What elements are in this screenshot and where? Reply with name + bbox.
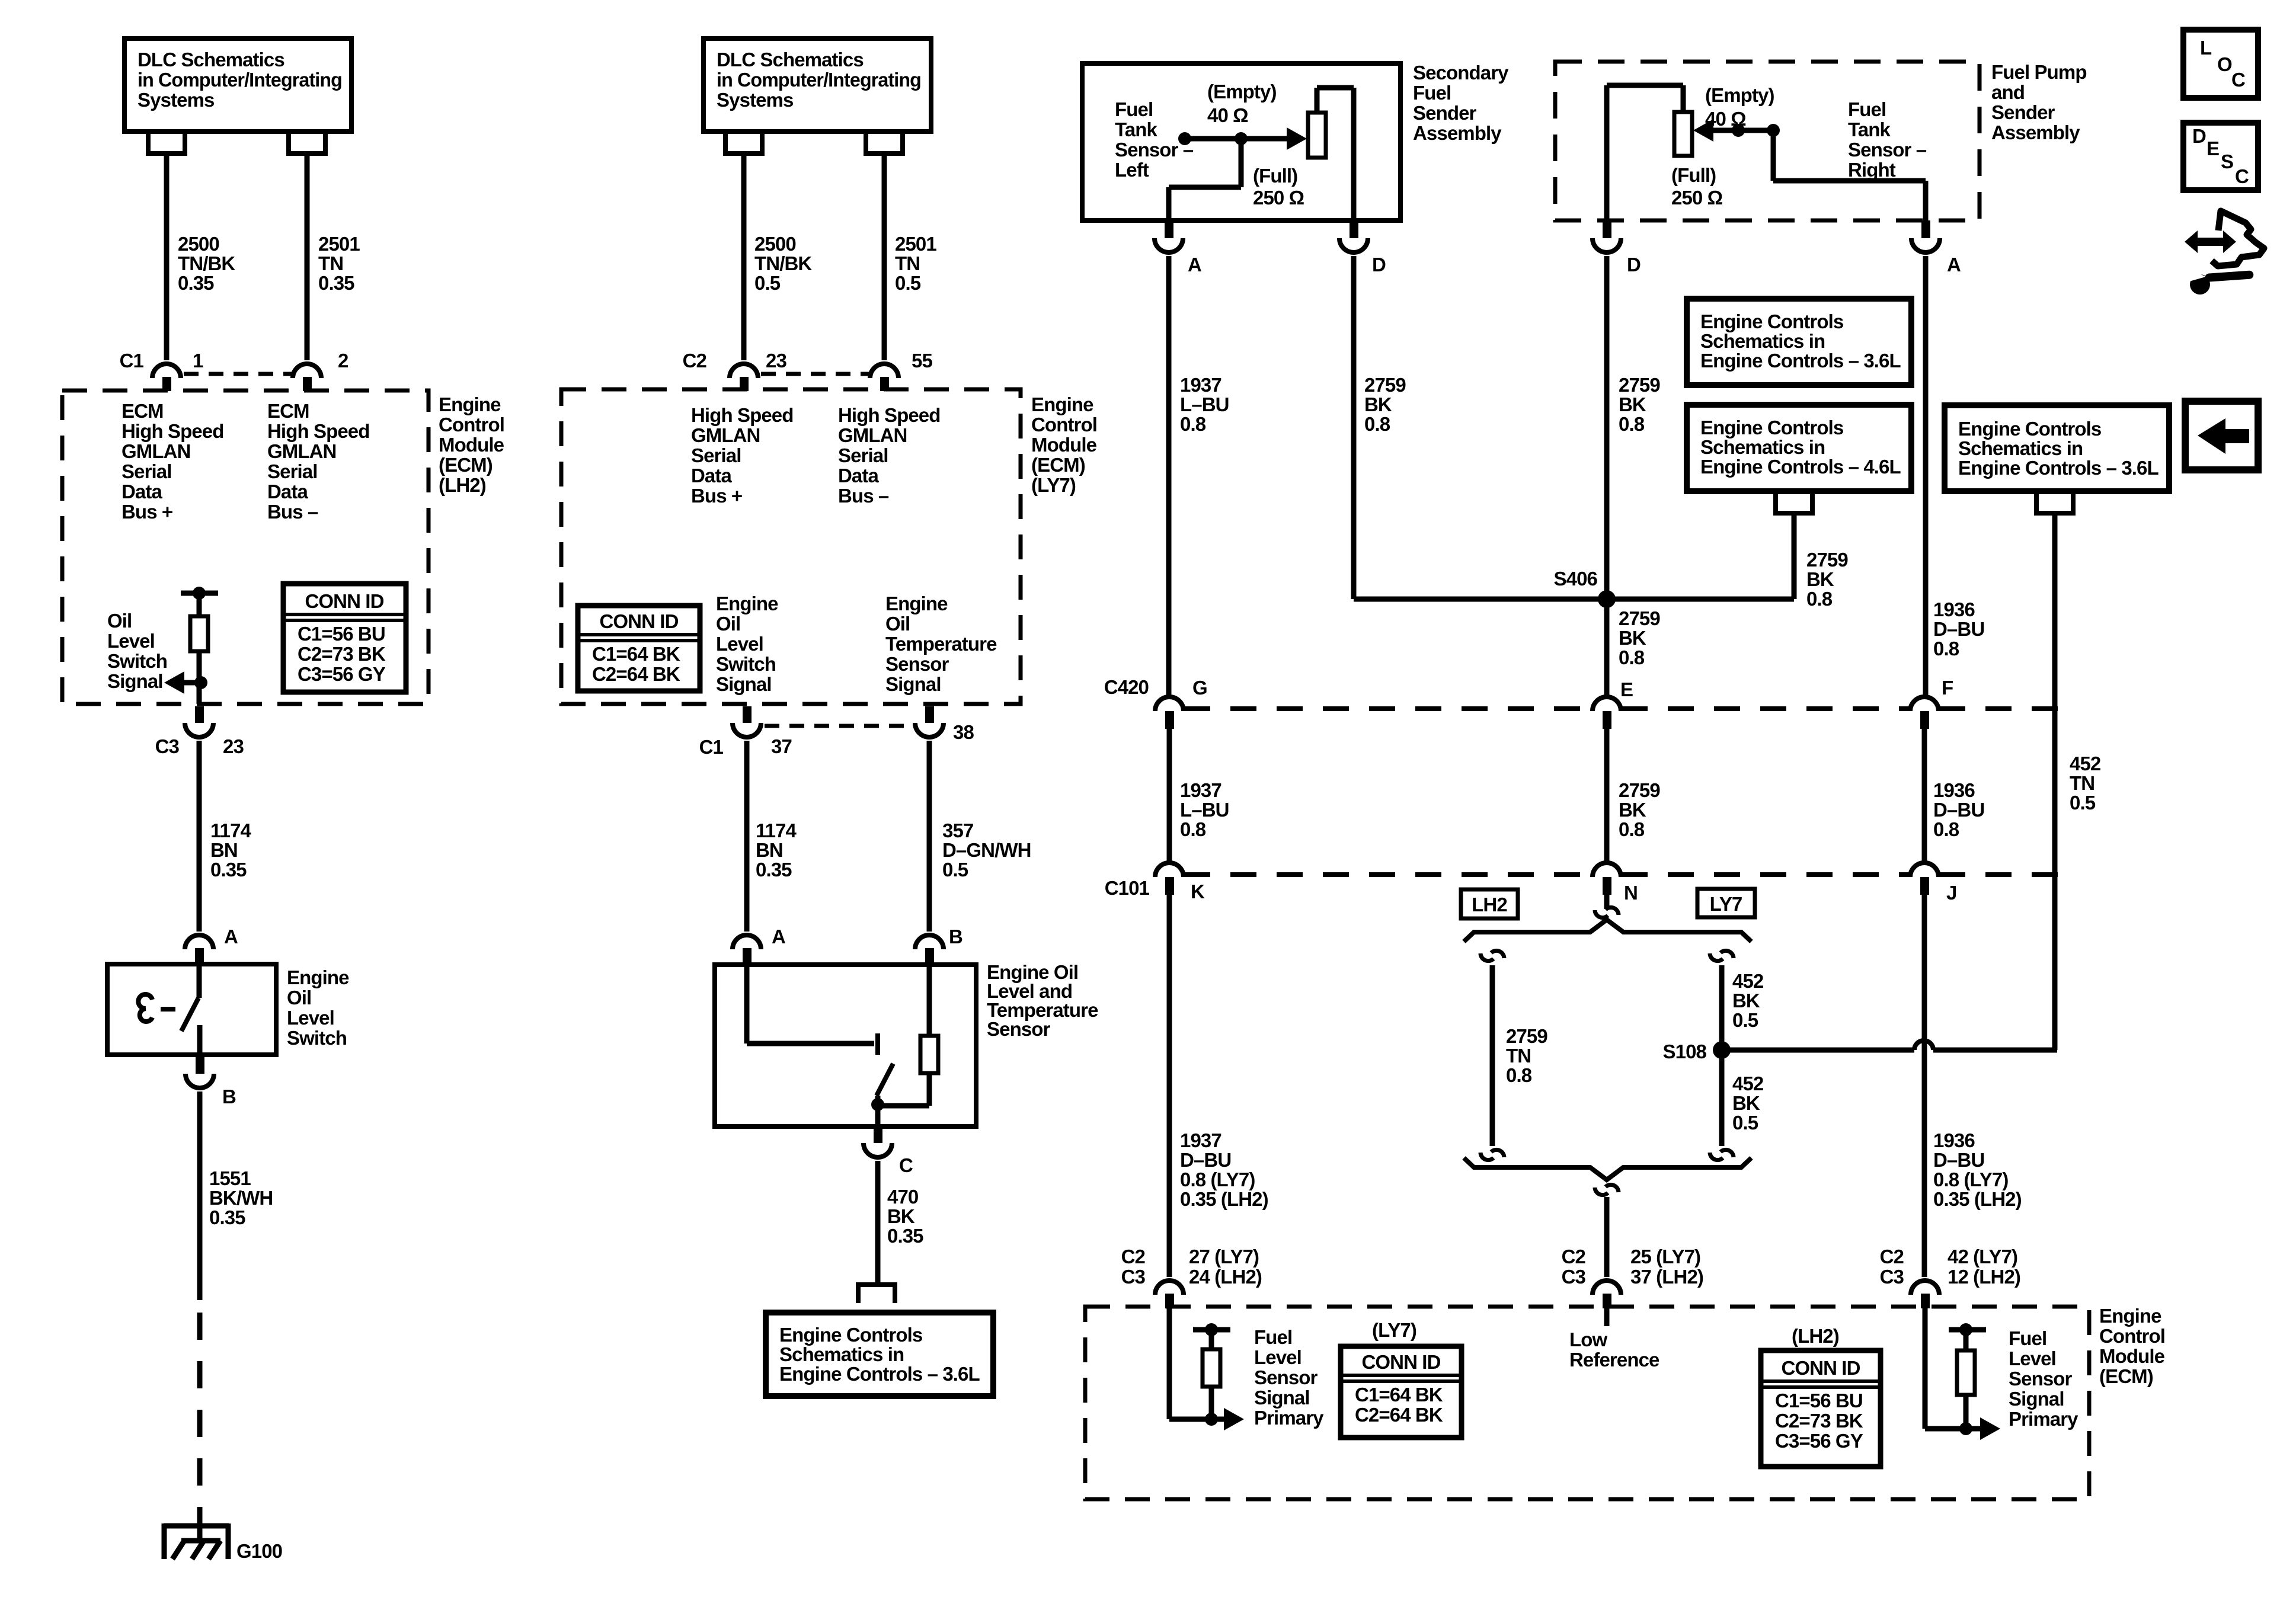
- svg-text:(ECM): (ECM): [2099, 1365, 2153, 1387]
- svg-text:CONN ID: CONN ID: [305, 590, 383, 612]
- svg-text:D–BU: D–BU: [1933, 1149, 1984, 1171]
- internal pull-up resistor of oil level switch input: [181, 591, 218, 596]
- svg-text:C101: C101: [1105, 877, 1150, 899]
- svg-text:Sender: Sender: [1991, 101, 2055, 123]
- svg-text:0.8: 0.8: [1933, 818, 1959, 840]
- connector C1 pin 1 half-circle: [152, 364, 181, 378]
- svg-text:GMLAN: GMLAN: [838, 424, 907, 446]
- connector ECM pin (left): [1155, 1281, 1184, 1295]
- svg-text:BK: BK: [1732, 1092, 1760, 1114]
- svg-text:0.5: 0.5: [1732, 1009, 1758, 1031]
- svg-text:Control: Control: [1031, 414, 1097, 436]
- horizontal wire from S108 to 452 TN wire with hop over J wire: [1722, 1048, 1914, 1053]
- wire 1551 BK/WH 0.35 from switch B toward G100: [197, 1092, 203, 1300]
- svg-text:C1=64 BK: C1=64 BK: [592, 643, 680, 665]
- Secondary Fuel Sender Assembly box (solid): [1082, 63, 1400, 220]
- svg-text:Data: Data: [121, 481, 162, 502]
- box: Engine Controls Schematics in Engine Controls - 3.6L (upper): [1687, 299, 1911, 385]
- connector fork above engine controls schematics box: [858, 1285, 895, 1303]
- wire 2759 BK 0.8 from right sender D to S406: [1604, 256, 1610, 599]
- svg-text:C420: C420: [1104, 676, 1149, 698]
- svg-text:Control: Control: [439, 414, 504, 436]
- svg-text:Schematics in: Schematics in: [1958, 437, 2083, 459]
- svg-text:2: 2: [338, 350, 348, 372]
- connector C1 pin 2 half-circle: [293, 364, 321, 378]
- svg-text:D–GN/WH: D–GN/WH: [942, 839, 1031, 861]
- wire 2759 BK 0.8 from left sender D to S406: [1351, 256, 1357, 599]
- svg-text:C3: C3: [155, 735, 180, 757]
- svg-text:Data: Data: [838, 465, 879, 486]
- svg-text:LH2: LH2: [1472, 894, 1507, 916]
- svg-text:24 (LH2): 24 (LH2): [1189, 1266, 1262, 1288]
- svg-text:ECM: ECM: [121, 400, 164, 422]
- box: Engine Controls Schematics in Engine Controls - 3.6L (right): [1945, 405, 2169, 491]
- wire 1936 D-BU 0.8 from right sender A to C420 F: [1923, 256, 1929, 697]
- connector A at oil level switch: [185, 935, 213, 949]
- connector C101 pin N: [1593, 863, 1621, 877]
- Engine Control Module (ECM) dashed box (bottom): [1085, 1307, 2089, 1499]
- connector C101 pin J: [1910, 863, 1939, 877]
- wire 2500 TN/BK 0.35 from DLC to ECM C1 pin 1: [164, 153, 170, 360]
- svg-text:1: 1: [193, 350, 203, 372]
- svg-text:0.8: 0.8: [1364, 413, 1390, 435]
- connector C101 dashed line: [1184, 872, 1592, 877]
- wire break symbol bottom-right branch: [1710, 1153, 1723, 1160]
- svg-text:0.8 (LY7): 0.8 (LY7): [1180, 1169, 1255, 1190]
- branch wire 2759 TN 0.8 (LH2): [1490, 965, 1495, 1146]
- svg-text:25 (LY7): 25 (LY7): [1630, 1246, 1700, 1267]
- svg-text:0.35: 0.35: [209, 1206, 245, 1228]
- branch wire 452 BK 0.5 (LY7) with splice S108: [1719, 965, 1725, 1146]
- svg-text:Systems: Systems: [137, 89, 214, 111]
- svg-text:S: S: [2221, 151, 2233, 172]
- wire 1936 D-BU from C101 J to ECM fuel level sensor input: [1922, 895, 1927, 1277]
- svg-text:(Empty): (Empty): [1207, 81, 1277, 103]
- svg-text:1936: 1936: [1933, 779, 1975, 801]
- svg-text:Primary: Primary: [1254, 1407, 1324, 1429]
- svg-text:Oil: Oil: [716, 613, 740, 635]
- svg-text:1937: 1937: [1180, 779, 1221, 801]
- svg-text:Fuel: Fuel: [1413, 82, 1451, 104]
- svg-text:LY7: LY7: [1710, 893, 1742, 915]
- svg-text:Bus –: Bus –: [838, 485, 889, 507]
- svg-text:Engine Controls – 3.6L: Engine Controls – 3.6L: [779, 1363, 980, 1385]
- svg-text:Sender: Sender: [1413, 102, 1477, 124]
- svg-text:C2=73 BK: C2=73 BK: [298, 643, 386, 665]
- svg-text:0.8: 0.8: [1180, 413, 1206, 435]
- svg-text:B: B: [949, 926, 962, 948]
- svg-text:TN: TN: [318, 252, 343, 274]
- svg-text:1937: 1937: [1180, 374, 1221, 396]
- box: DLC Schematics in Computer/Integrating Systems (left): [124, 39, 351, 132]
- svg-text:Reference: Reference: [1569, 1349, 1659, 1371]
- svg-text:CONN ID: CONN ID: [1781, 1357, 1860, 1379]
- svg-text:TN: TN: [895, 252, 920, 274]
- svg-text:2759: 2759: [1364, 374, 1406, 396]
- svg-text:C1: C1: [120, 350, 144, 372]
- svg-text:Engine Controls: Engine Controls: [1700, 417, 1843, 438]
- svg-text:Secondary: Secondary: [1413, 62, 1509, 84]
- svg-text:BK: BK: [1619, 799, 1646, 821]
- svg-text:C2: C2: [1880, 1246, 1904, 1267]
- wire break symbol top-right branch: [1710, 953, 1723, 961]
- svg-text:(LY7): (LY7): [1372, 1319, 1416, 1341]
- svg-text:N: N: [1624, 882, 1638, 904]
- wire from C101 N into harness split: [1604, 895, 1610, 909]
- dashed continuation of wire 1551 to ground: [197, 1313, 203, 1526]
- svg-text:2759: 2759: [1619, 374, 1660, 396]
- svg-text:and: and: [1991, 81, 2025, 103]
- svg-text:Fuel Pump: Fuel Pump: [1991, 61, 2087, 83]
- svg-text:BK: BK: [1619, 627, 1646, 649]
- wire 1937 L-BU 0.8 from C420 G to C101 K: [1167, 729, 1172, 862]
- svg-text:BK: BK: [1806, 568, 1834, 590]
- svg-text:Signal: Signal: [2009, 1388, 2064, 1410]
- svg-text:TN: TN: [2070, 772, 2094, 794]
- svg-text:Assembly: Assembly: [1991, 121, 2080, 143]
- svg-text:O: O: [2217, 53, 2232, 75]
- wire 2759 BK 0.8 from 4.6L schematics to S406 line: [1792, 513, 1797, 599]
- svg-text:D: D: [1627, 254, 1641, 276]
- svg-text:Module: Module: [2099, 1345, 2165, 1367]
- ECM (LH2) dashed module box: [62, 391, 428, 704]
- svg-text:Switch: Switch: [287, 1027, 347, 1049]
- svg-text:Tank: Tank: [1115, 119, 1158, 140]
- svg-text:GMLAN: GMLAN: [121, 440, 190, 462]
- svg-text:E: E: [1620, 678, 1633, 700]
- connector fork under 4.6L schematics box: [1776, 491, 1812, 513]
- dashed connector line C1 pins 1-2: [184, 372, 292, 376]
- wire 1937 D-BU from C101 K to ECM fuel level sensor input: [1167, 895, 1172, 1277]
- connector A under right sender: [1921, 220, 1930, 238]
- svg-text:D–BU: D–BU: [1933, 618, 1984, 640]
- wire 2500 TN/BK 0.5 from DLC to ECM C2 pin 23: [741, 153, 747, 360]
- svg-text:J: J: [1946, 882, 1956, 904]
- ECM (LY7) dashed module box: [561, 389, 1021, 704]
- svg-text:C2=73 BK: C2=73 BK: [1775, 1410, 1863, 1432]
- connector C3 pin 23 half-circle: [195, 706, 204, 723]
- connector fork under DLC box right pin: [289, 132, 325, 153]
- svg-text:0.8: 0.8: [1619, 646, 1645, 668]
- svg-text:0.5: 0.5: [942, 859, 968, 881]
- svg-text:GMLAN: GMLAN: [691, 424, 760, 446]
- label box LY7: [1697, 889, 1755, 917]
- low reference stub into ECM: [1604, 1307, 1610, 1326]
- svg-text:Systems: Systems: [717, 89, 793, 111]
- svg-text:C1=56 BU: C1=56 BU: [298, 623, 385, 645]
- box: Engine Controls Schematics in Engine Controls - 4.6L: [1687, 405, 1911, 491]
- svg-text:Bus +: Bus +: [691, 485, 742, 507]
- svg-text:0.5: 0.5: [1732, 1112, 1758, 1134]
- svg-text:C1=56 BU: C1=56 BU: [1775, 1390, 1863, 1411]
- svg-text:in Computer/Integrating: in Computer/Integrating: [717, 69, 921, 91]
- connector A at oil level/temp sensor: [733, 935, 761, 949]
- Fuel Pump and Sender Assembly box (dashed): [1555, 62, 1980, 220]
- svg-text:G100: G100: [236, 1540, 282, 1562]
- svg-text:Temperature: Temperature: [885, 633, 997, 655]
- wire 1174 BN 0.35 from ECM C3-23 to oil level switch A: [197, 741, 202, 932]
- svg-text:F: F: [1942, 677, 1953, 699]
- svg-text:C1=64 BK: C1=64 BK: [1355, 1384, 1443, 1406]
- svg-text:1174: 1174: [210, 820, 252, 841]
- svg-text:TN/BK: TN/BK: [754, 252, 812, 274]
- wire 2501 TN 0.35 from DLC to ECM C1 pin 2: [305, 153, 310, 360]
- svg-text:Oil: Oil: [287, 987, 311, 1009]
- splice S108: [1713, 1041, 1731, 1059]
- dashed connector line C1 pins 37-38: [765, 724, 913, 728]
- svg-text:Control: Control: [2099, 1325, 2165, 1347]
- svg-text:2501: 2501: [318, 233, 360, 255]
- svg-text:Low: Low: [1569, 1329, 1608, 1350]
- connector C420 dashed line: [1184, 706, 1592, 711]
- CONN ID box (LH2 ECM): C1=56 BU, C2=73 BK, C3=56 GY: [283, 584, 406, 692]
- svg-text:C3=56 GY: C3=56 GY: [1775, 1430, 1863, 1452]
- svg-text:Level: Level: [716, 633, 763, 655]
- ground G100: [164, 1517, 229, 1559]
- svg-text:0.35: 0.35: [887, 1225, 923, 1247]
- svg-text:Level: Level: [2009, 1347, 2056, 1369]
- svg-text:A: A: [772, 926, 785, 948]
- svg-text:BN: BN: [210, 839, 238, 861]
- svg-text:GMLAN: GMLAN: [267, 440, 336, 462]
- box: Engine Controls Schematics in Engine Controls - 3.6L (middle bottom): [766, 1313, 993, 1396]
- connector C at oil level/temp sensor: [874, 1126, 882, 1143]
- svg-text:DLC Schematics: DLC Schematics: [717, 49, 864, 71]
- wire break symbol bottom-left branch: [1480, 1153, 1494, 1160]
- svg-text:in Computer/Integrating: in Computer/Integrating: [137, 69, 342, 91]
- svg-text:(Full): (Full): [1253, 165, 1297, 187]
- wire 2759 BK 0.8 from C420 E to C101 N: [1604, 729, 1610, 862]
- Engine Oil Level and Temperature Sensor box: [715, 965, 976, 1126]
- svg-text:L–BU: L–BU: [1180, 393, 1229, 415]
- svg-text:BK/WH: BK/WH: [209, 1187, 273, 1209]
- connector B at oil level/temp sensor: [915, 935, 944, 949]
- svg-text:1551: 1551: [209, 1167, 251, 1189]
- DESC legend box: [2183, 123, 2258, 190]
- svg-text:0.8: 0.8: [1180, 818, 1206, 840]
- svg-text:Module: Module: [1031, 434, 1097, 456]
- svg-text:Sensor –: Sensor –: [1848, 139, 1927, 161]
- svg-text:G: G: [1192, 677, 1207, 699]
- wire break symbol top-left branch: [1480, 953, 1494, 961]
- svg-text:TN: TN: [1506, 1045, 1531, 1067]
- svg-text:S108: S108: [1663, 1041, 1707, 1062]
- svg-text:357: 357: [942, 820, 973, 841]
- svg-text:Data: Data: [267, 481, 308, 502]
- svg-text:D–BU: D–BU: [1180, 1149, 1231, 1171]
- svg-text:DLC Schematics: DLC Schematics: [137, 49, 284, 71]
- connector A under left sender: [1165, 220, 1173, 238]
- svg-text:A: A: [1188, 254, 1201, 276]
- svg-text:2759: 2759: [1806, 549, 1848, 571]
- svg-text:1174: 1174: [756, 820, 797, 841]
- svg-text:(LY7): (LY7): [1031, 474, 1076, 496]
- svg-text:0.8 (LY7): 0.8 (LY7): [1933, 1169, 2008, 1190]
- svg-text:1937: 1937: [1180, 1129, 1221, 1151]
- CONN ID box (LY7 ECM): C1=64 BK, C2=64 BK: [578, 606, 700, 691]
- svg-text:2759: 2759: [1619, 607, 1660, 629]
- svg-text:D–BU: D–BU: [1933, 799, 1984, 821]
- svg-text:C2=64 BK: C2=64 BK: [1355, 1404, 1443, 1426]
- wire low reference to ECM C2/C3: [1604, 1197, 1610, 1277]
- svg-text:Sensor: Sensor: [885, 653, 949, 675]
- level switch contact inside sensor: [744, 967, 750, 1044]
- svg-text:Right: Right: [1848, 159, 1896, 181]
- svg-text:0.5: 0.5: [2070, 792, 2096, 814]
- fuel level sensor signal input circuit (right): [1923, 1307, 1928, 1429]
- svg-text:23: 23: [223, 735, 244, 757]
- svg-text:Sensor: Sensor: [1254, 1366, 1318, 1388]
- svg-text:C3: C3: [1121, 1266, 1146, 1288]
- svg-text:C: C: [2235, 165, 2249, 187]
- bottom brace of LH2/LY7 harness split: [1464, 1158, 1751, 1180]
- svg-text:Tank: Tank: [1848, 119, 1891, 140]
- svg-text:C3=56 GY: C3=56 GY: [298, 663, 386, 685]
- svg-text:High Speed: High Speed: [838, 404, 941, 426]
- svg-text:Engine Controls: Engine Controls: [1700, 311, 1843, 332]
- fuel level sensor signal input circuit (left): [1167, 1307, 1172, 1419]
- horizontal wire joining sender D legs at S406: [1354, 597, 1794, 602]
- svg-text:Engine: Engine: [1031, 393, 1093, 415]
- float actuator symbol: [138, 994, 152, 1022]
- svg-text:BK: BK: [1732, 990, 1760, 1012]
- svg-text:37 (LH2): 37 (LH2): [1630, 1266, 1703, 1288]
- svg-text:Level: Level: [107, 630, 155, 652]
- svg-text:C2=64 BK: C2=64 BK: [592, 663, 680, 685]
- svg-text:D: D: [2192, 125, 2206, 147]
- box: DLC Schematics in Computer/Integrating Systems (middle): [703, 39, 931, 132]
- connector D under left sender: [1350, 220, 1358, 238]
- svg-text:C: C: [2231, 69, 2245, 91]
- svg-text:0.35: 0.35: [756, 859, 792, 881]
- svg-text:Left: Left: [1115, 159, 1149, 181]
- svg-text:CONN ID: CONN ID: [1361, 1351, 1440, 1373]
- connector fork under middle DLC box right pin: [866, 132, 903, 153]
- svg-text:0.35: 0.35: [318, 272, 354, 294]
- fuel tank sensor left potentiometer: [1178, 132, 1191, 145]
- svg-text:Bus +: Bus +: [121, 501, 172, 523]
- svg-text:C1: C1: [699, 736, 724, 758]
- svg-text:23: 23: [766, 350, 786, 372]
- svg-text:C3: C3: [1880, 1266, 1904, 1288]
- oil level switch symbol: [197, 966, 202, 998]
- svg-text:Schematics in: Schematics in: [779, 1343, 904, 1365]
- svg-text:Engine: Engine: [287, 966, 349, 988]
- LOC legend box: [2183, 30, 2258, 98]
- svg-text:452: 452: [1732, 970, 1764, 992]
- svg-text:CONN ID: CONN ID: [599, 610, 678, 632]
- dashed connector line C2 pins 23-55: [761, 372, 869, 376]
- svg-text:2500: 2500: [754, 233, 796, 255]
- svg-text:470: 470: [887, 1186, 918, 1208]
- svg-text:High Speed: High Speed: [267, 420, 370, 442]
- svg-text:(LH2): (LH2): [1792, 1325, 1839, 1347]
- connector ECM pin (middle): [1593, 1281, 1621, 1295]
- svg-text:E: E: [2207, 137, 2219, 159]
- connector C101 pin K: [1155, 863, 1184, 877]
- svg-text:Fuel: Fuel: [1115, 98, 1153, 120]
- CONN ID box (LY7): C1=64 BK, C2=64 BK: [1341, 1346, 1462, 1438]
- svg-text:Schematics in: Schematics in: [1700, 436, 1825, 458]
- svg-text:BK: BK: [1619, 393, 1646, 415]
- svg-text:452: 452: [2070, 753, 2101, 774]
- wire from resistor node down to ECM box edge: [197, 683, 202, 704]
- svg-text:2759: 2759: [1506, 1025, 1547, 1047]
- svg-text:Engine: Engine: [716, 593, 778, 614]
- top brace of LH2/LY7 harness split: [1464, 920, 1751, 942]
- svg-text:(Full): (Full): [1671, 164, 1716, 186]
- svg-text:0.35 (LH2): 0.35 (LH2): [1933, 1188, 2022, 1210]
- svg-text:Serial: Serial: [267, 460, 318, 482]
- svg-text:C2: C2: [1121, 1246, 1146, 1267]
- svg-text:37: 37: [771, 735, 792, 757]
- svg-text:0.8: 0.8: [1806, 588, 1833, 610]
- connector ECM pin (right): [1911, 1281, 1939, 1295]
- svg-text:Serial: Serial: [691, 444, 741, 466]
- connector D under right sender: [1603, 220, 1611, 238]
- connector C420 pin F: [1910, 697, 1939, 711]
- svg-text:0.5: 0.5: [895, 272, 921, 294]
- svg-text:Signal: Signal: [1254, 1387, 1310, 1409]
- svg-text:BK: BK: [1364, 393, 1392, 415]
- svg-text:0.35 (LH2): 0.35 (LH2): [1180, 1188, 1268, 1210]
- svg-text:12 (LH2): 12 (LH2): [1948, 1266, 2020, 1288]
- svg-text:High Speed: High Speed: [691, 404, 794, 426]
- svg-text:C2: C2: [1562, 1246, 1586, 1267]
- svg-text:Fuel: Fuel: [1848, 98, 1886, 120]
- wire 2501 TN 0.5 from DLC to ECM C2 pin 55: [882, 153, 887, 360]
- svg-text:D: D: [1372, 254, 1386, 276]
- svg-text:2501: 2501: [895, 233, 936, 255]
- connector C1 pin 38 half-circle: [925, 706, 934, 723]
- svg-text:0.35: 0.35: [210, 859, 247, 881]
- svg-text:Engine Controls: Engine Controls: [1958, 418, 2101, 440]
- connector fork under right 3.6L schematics box: [2036, 491, 2073, 513]
- svg-text:Sensor: Sensor: [2009, 1368, 2073, 1390]
- svg-text:Level: Level: [287, 1007, 334, 1029]
- svg-text:40 Ω: 40 Ω: [1207, 104, 1248, 126]
- svg-text:0.35: 0.35: [178, 272, 214, 294]
- svg-text:Primary: Primary: [2009, 1408, 2078, 1430]
- svg-text:Sensor: Sensor: [987, 1018, 1051, 1040]
- connector C420 pin E: [1593, 697, 1621, 711]
- svg-text:L: L: [2200, 37, 2212, 59]
- svg-text:(ECM): (ECM): [439, 454, 493, 476]
- CONN ID box (LH2): C1=56 BU, C2=73 BK, C3=56 GY: [1761, 1350, 1881, 1467]
- svg-text:1936: 1936: [1933, 1129, 1975, 1151]
- svg-text:(ECM): (ECM): [1031, 454, 1085, 476]
- svg-text:Fuel: Fuel: [2009, 1327, 2046, 1349]
- svg-text:Bus –: Bus –: [267, 501, 318, 523]
- Engine Oil Level Switch box: [107, 964, 276, 1055]
- wire 1936 D-BU 0.8 from C420 F to C101 J: [1922, 729, 1927, 862]
- svg-text:Level: Level: [1254, 1346, 1302, 1368]
- svg-text:2759: 2759: [1619, 779, 1660, 801]
- connector C420 pin G: [1155, 697, 1184, 711]
- svg-text:BN: BN: [756, 839, 783, 861]
- svg-text:42 (LY7): 42 (LY7): [1948, 1246, 2017, 1267]
- svg-text:27 (LY7): 27 (LY7): [1189, 1246, 1259, 1267]
- svg-text:ECM: ECM: [267, 400, 309, 422]
- svg-text:Serial: Serial: [838, 444, 888, 466]
- connector C2 pin 23 half-circle: [730, 364, 758, 378]
- connector service icon: double arrow, housing outline, wrench: [2185, 211, 2264, 295]
- svg-text:Signal: Signal: [885, 673, 941, 695]
- svg-text:0.8: 0.8: [1933, 638, 1959, 660]
- svg-text:Oil: Oil: [107, 610, 132, 632]
- connector fork under middle DLC box left pin: [725, 132, 762, 153]
- svg-text:0.8: 0.8: [1506, 1064, 1532, 1086]
